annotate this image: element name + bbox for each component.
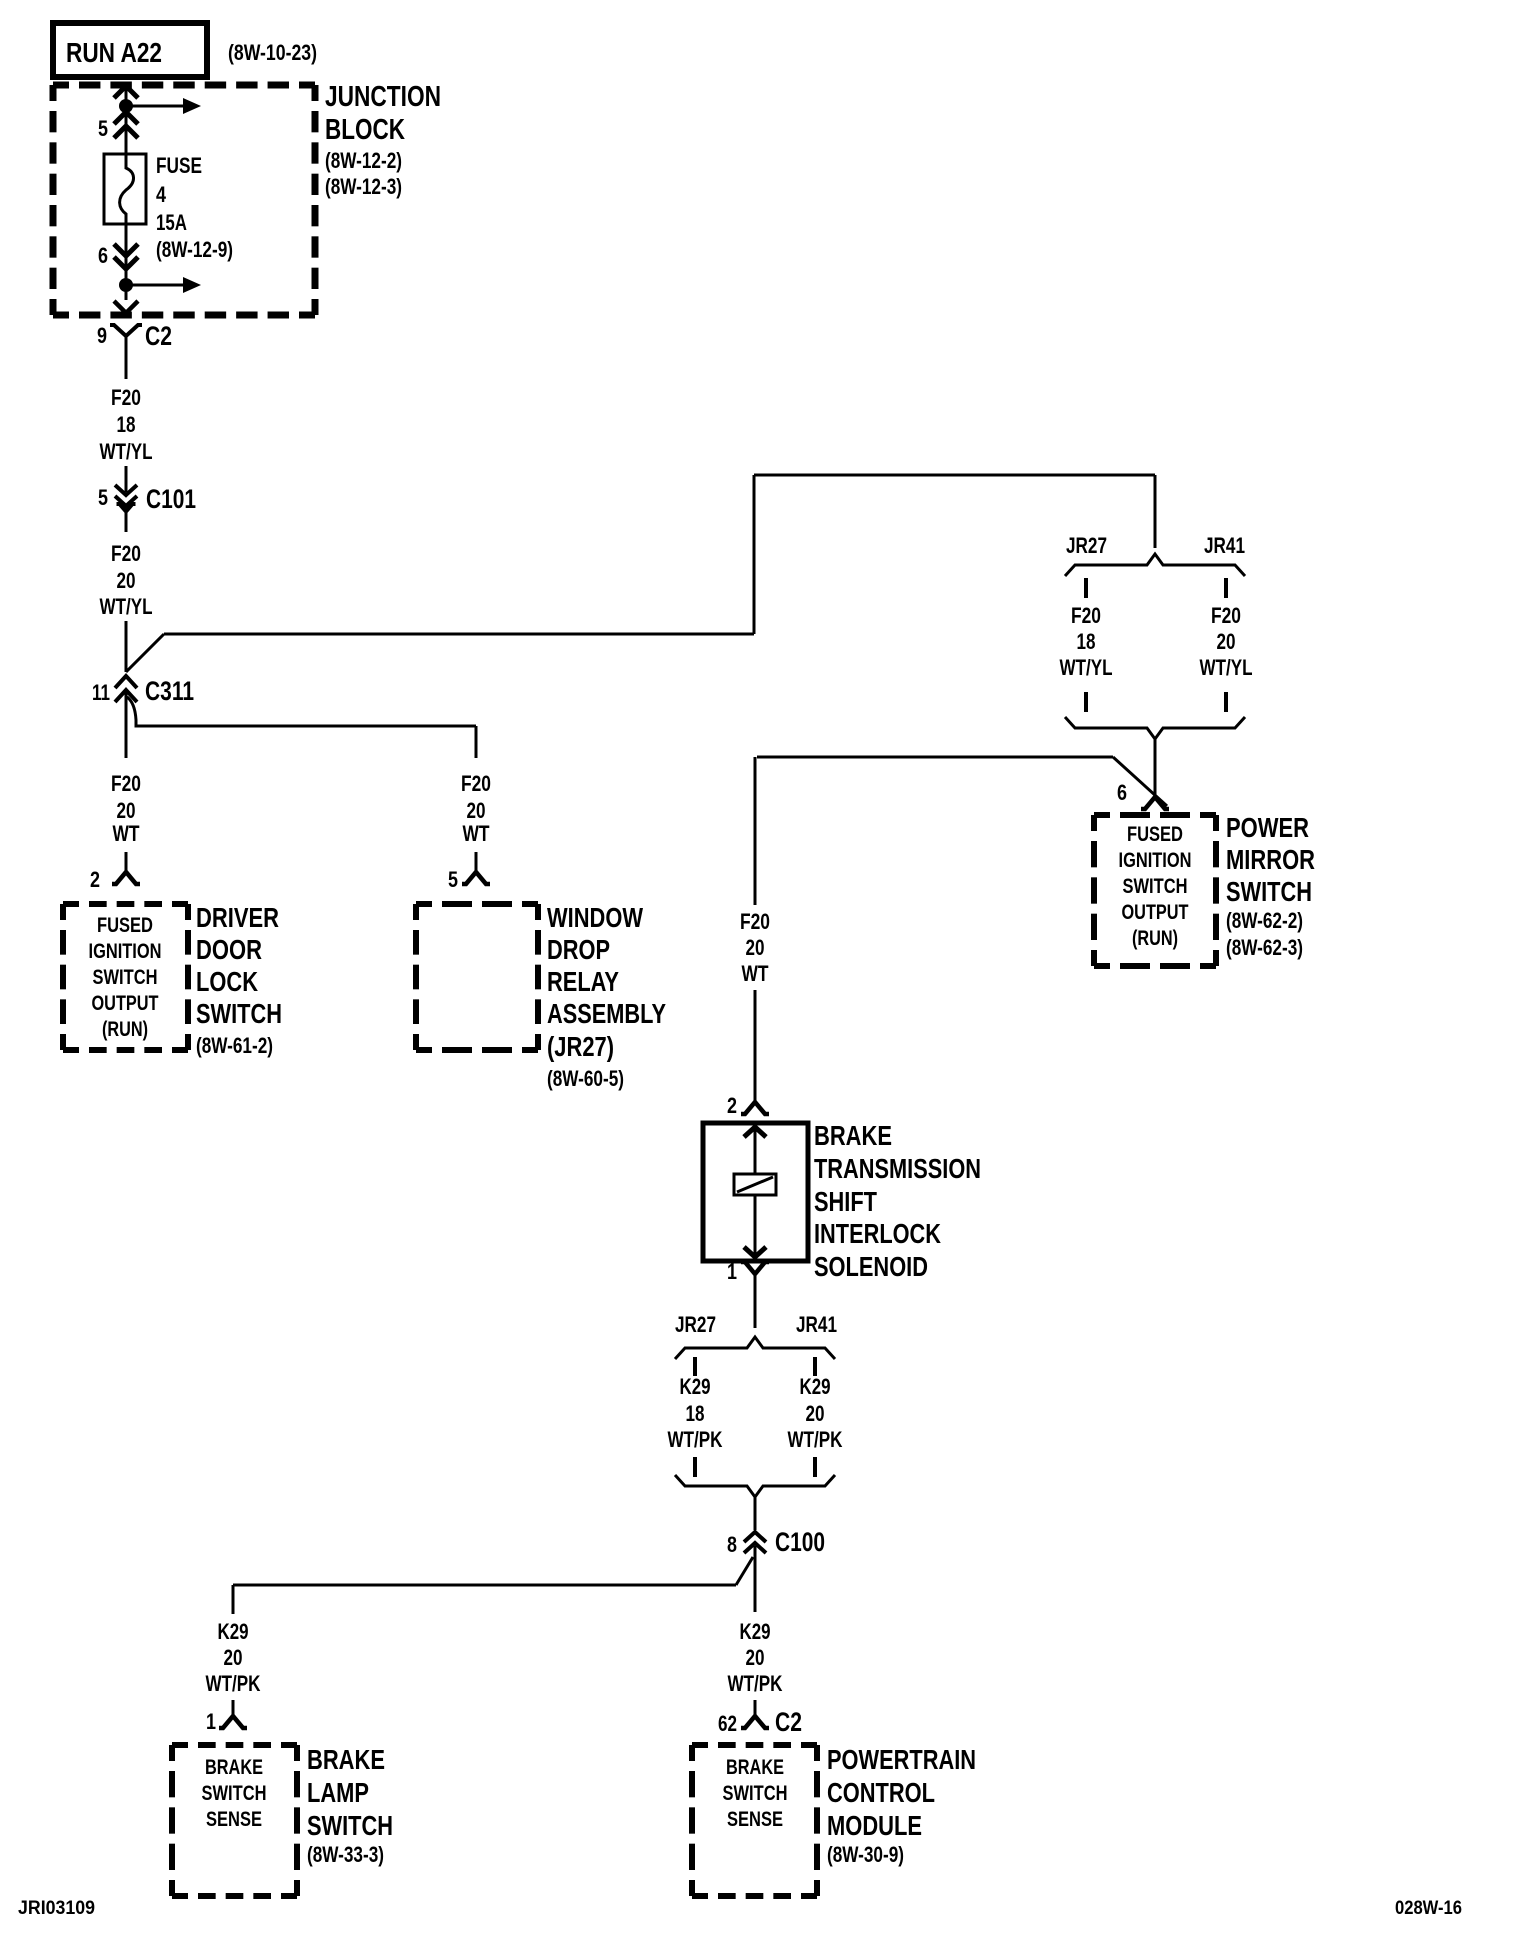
svg-text:5: 5 bbox=[448, 867, 458, 892]
svg-text:BRAKE: BRAKE bbox=[205, 1756, 263, 1779]
svg-text:4: 4 bbox=[156, 182, 167, 207]
svg-text:62: 62 bbox=[718, 1711, 737, 1736]
svg-text:K29: K29 bbox=[800, 1374, 831, 1399]
svg-text:18: 18 bbox=[686, 1401, 705, 1426]
svg-text:MIRROR: MIRROR bbox=[1226, 844, 1315, 875]
svg-text:(8W-60-5): (8W-60-5) bbox=[547, 1066, 624, 1091]
svg-text:K29: K29 bbox=[680, 1374, 711, 1399]
svg-text:5: 5 bbox=[98, 116, 108, 141]
svg-text:SENSE: SENSE bbox=[206, 1808, 262, 1831]
svg-text:WT/YL: WT/YL bbox=[100, 594, 153, 619]
svg-text:FUSED: FUSED bbox=[97, 914, 153, 937]
svg-text:K29: K29 bbox=[740, 1619, 771, 1644]
svg-text:1: 1 bbox=[206, 1709, 216, 1734]
svg-text:RUN A22: RUN A22 bbox=[66, 37, 162, 68]
svg-text:SWITCH: SWITCH bbox=[196, 998, 282, 1029]
svg-text:IGNITION: IGNITION bbox=[1119, 849, 1192, 872]
svg-text:20: 20 bbox=[746, 935, 765, 960]
svg-text:(8W-61-2): (8W-61-2) bbox=[196, 1033, 273, 1058]
svg-text:6: 6 bbox=[98, 243, 108, 268]
svg-text:(8W-62-2): (8W-62-2) bbox=[1226, 908, 1303, 933]
svg-text:BRAKE: BRAKE bbox=[307, 1744, 385, 1775]
svg-text:F20: F20 bbox=[1211, 603, 1241, 628]
svg-text:C2: C2 bbox=[145, 321, 172, 351]
svg-text:SOLENOID: SOLENOID bbox=[814, 1251, 928, 1282]
svg-text:F20: F20 bbox=[111, 771, 141, 796]
svg-text:WT: WT bbox=[742, 961, 769, 986]
svg-text:JR41: JR41 bbox=[1204, 533, 1245, 558]
svg-text:DOOR: DOOR bbox=[196, 934, 262, 965]
svg-text:8: 8 bbox=[727, 1532, 737, 1557]
svg-text:WT/PK: WT/PK bbox=[728, 1671, 783, 1696]
svg-text:BRAKE: BRAKE bbox=[814, 1120, 892, 1151]
svg-text:WT/YL: WT/YL bbox=[1200, 655, 1253, 680]
svg-text:6: 6 bbox=[1117, 780, 1127, 805]
svg-text:INTERLOCK: INTERLOCK bbox=[814, 1218, 941, 1249]
svg-text:18: 18 bbox=[117, 412, 136, 437]
svg-text:DRIVER: DRIVER bbox=[196, 902, 279, 933]
svg-text:(8W-62-3): (8W-62-3) bbox=[1226, 935, 1303, 960]
svg-text:C100: C100 bbox=[775, 1527, 825, 1557]
svg-text:(8W-12-3): (8W-12-3) bbox=[325, 174, 402, 199]
svg-text:SWITCH: SWITCH bbox=[202, 1782, 267, 1805]
svg-text:K29: K29 bbox=[218, 1619, 249, 1644]
svg-text:C311: C311 bbox=[145, 676, 194, 706]
svg-text:(8W-33-3): (8W-33-3) bbox=[307, 1842, 384, 1867]
svg-text:SHIFT: SHIFT bbox=[814, 1186, 877, 1217]
svg-text:15A: 15A bbox=[156, 210, 187, 235]
svg-text:(8W-12-2): (8W-12-2) bbox=[325, 148, 402, 173]
svg-text:JUNCTION: JUNCTION bbox=[325, 81, 441, 113]
svg-text:SWITCH: SWITCH bbox=[1226, 876, 1312, 907]
svg-text:FUSED: FUSED bbox=[1127, 823, 1183, 846]
svg-text:RELAY: RELAY bbox=[547, 966, 619, 997]
svg-text:C101: C101 bbox=[146, 484, 196, 514]
svg-text:BLOCK: BLOCK bbox=[325, 114, 405, 146]
svg-text:WINDOW: WINDOW bbox=[547, 902, 643, 933]
svg-text:POWERTRAIN: POWERTRAIN bbox=[827, 1744, 976, 1775]
svg-text:OUTPUT: OUTPUT bbox=[1122, 901, 1189, 924]
svg-text:18: 18 bbox=[1077, 629, 1096, 654]
svg-text:CONTROL: CONTROL bbox=[827, 1777, 935, 1808]
svg-text:POWER: POWER bbox=[1226, 812, 1309, 843]
svg-text:(RUN): (RUN) bbox=[1132, 927, 1178, 950]
svg-text:OUTPUT: OUTPUT bbox=[92, 992, 159, 1015]
svg-text:WT/PK: WT/PK bbox=[788, 1427, 843, 1452]
svg-text:2: 2 bbox=[727, 1093, 737, 1118]
svg-text:WT: WT bbox=[463, 821, 490, 846]
svg-text:F20: F20 bbox=[740, 909, 770, 934]
svg-text:F20: F20 bbox=[111, 385, 141, 410]
svg-text:LOCK: LOCK bbox=[196, 966, 258, 997]
svg-text:20: 20 bbox=[746, 1645, 765, 1670]
svg-text:JR41: JR41 bbox=[796, 1312, 837, 1337]
svg-text:F20: F20 bbox=[111, 541, 141, 566]
svg-text:SWITCH: SWITCH bbox=[307, 1810, 393, 1841]
svg-text:F20: F20 bbox=[1071, 603, 1101, 628]
svg-text:IGNITION: IGNITION bbox=[89, 940, 162, 963]
svg-text:WT/YL: WT/YL bbox=[1060, 655, 1113, 680]
svg-text:JR27: JR27 bbox=[1066, 533, 1107, 558]
svg-text:BRAKE: BRAKE bbox=[726, 1756, 784, 1779]
svg-text:SENSE: SENSE bbox=[727, 1808, 783, 1831]
svg-text:C2: C2 bbox=[775, 1707, 802, 1737]
svg-text:DROP: DROP bbox=[547, 934, 610, 965]
svg-text:WT/PK: WT/PK bbox=[206, 1671, 261, 1696]
svg-text:TRANSMISSION: TRANSMISSION bbox=[814, 1153, 981, 1184]
svg-text:(8W-10-23): (8W-10-23) bbox=[228, 40, 317, 65]
svg-text:(8W-30-9): (8W-30-9) bbox=[827, 1842, 904, 1867]
svg-text:(RUN): (RUN) bbox=[102, 1018, 148, 1041]
svg-text:5: 5 bbox=[98, 485, 108, 510]
svg-text:WT/YL: WT/YL bbox=[100, 439, 153, 464]
svg-text:SWITCH: SWITCH bbox=[93, 966, 158, 989]
svg-text:2: 2 bbox=[90, 867, 100, 892]
svg-text:(8W-12-9): (8W-12-9) bbox=[156, 237, 233, 262]
svg-text:F20: F20 bbox=[461, 771, 491, 796]
svg-text:20: 20 bbox=[467, 798, 486, 823]
svg-text:20: 20 bbox=[117, 798, 136, 823]
svg-text:SWITCH: SWITCH bbox=[1123, 875, 1188, 898]
svg-text:MODULE: MODULE bbox=[827, 1810, 922, 1841]
svg-text:WT: WT bbox=[113, 821, 140, 846]
svg-text:ASSEMBLY: ASSEMBLY bbox=[547, 998, 666, 1029]
svg-text:SWITCH: SWITCH bbox=[723, 1782, 788, 1805]
svg-text:20: 20 bbox=[806, 1401, 825, 1426]
svg-text:WT/PK: WT/PK bbox=[668, 1427, 723, 1452]
svg-text:20: 20 bbox=[117, 568, 136, 593]
svg-text:1: 1 bbox=[727, 1259, 737, 1284]
svg-text:(JR27): (JR27) bbox=[547, 1031, 614, 1062]
svg-text:028W-16: 028W-16 bbox=[1395, 1898, 1462, 1919]
svg-text:11: 11 bbox=[92, 680, 110, 705]
svg-text:JR27: JR27 bbox=[675, 1312, 716, 1337]
svg-text:9: 9 bbox=[97, 323, 107, 348]
svg-text:20: 20 bbox=[1217, 629, 1236, 654]
svg-text:20: 20 bbox=[224, 1645, 243, 1670]
svg-text:LAMP: LAMP bbox=[307, 1777, 369, 1808]
svg-text:FUSE: FUSE bbox=[156, 153, 202, 178]
svg-text:JRI03109: JRI03109 bbox=[18, 1898, 95, 1919]
